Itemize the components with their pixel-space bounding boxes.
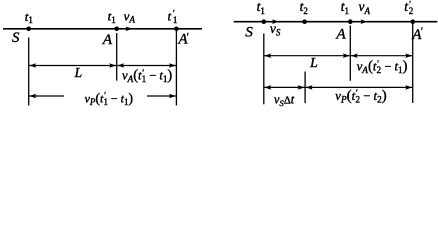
point A-prime dot (left panel) xyxy=(174,27,179,32)
svg-text:A: A xyxy=(102,31,113,48)
left panel axis line xyxy=(3,28,202,30)
svg-text:t1: t1 xyxy=(108,9,116,25)
dimension arrow vP(t1p-t1) with inline label (left panel) xyxy=(29,95,64,97)
dimension arrow vA(t1p-t1) (left panel) xyxy=(117,65,177,67)
point A dot (right panel) xyxy=(348,19,353,24)
svg-text:L: L xyxy=(309,55,318,70)
dimension arrow L (right panel) xyxy=(264,55,351,57)
point A-prime dot (right panel) xyxy=(411,19,416,24)
svg-text:A′: A′ xyxy=(178,32,190,48)
dimension arrow vP(t2p-t2) (right panel) xyxy=(305,86,413,88)
svg-text:t1: t1 xyxy=(257,0,265,16)
svg-text:S: S xyxy=(245,23,253,40)
vertical extension line from A-prime (left panel) xyxy=(175,31,177,106)
point S dot (left panel) xyxy=(26,27,31,32)
svg-text:t′2: t′2 xyxy=(404,0,413,16)
velocity arrowhead vA on axis (right panel) xyxy=(361,19,368,24)
svg-text:vA(t′2 − t1): vA(t′2 − t1) xyxy=(357,59,408,77)
svg-text:vA: vA xyxy=(359,0,371,16)
svg-text:vS: vS xyxy=(270,21,281,38)
svg-text:S: S xyxy=(12,30,20,46)
svg-text:t1: t1 xyxy=(25,9,33,25)
dimension arrow L (left panel) xyxy=(29,65,117,67)
velocity arrowhead vA on axis (left panel) xyxy=(126,27,133,32)
dimension arrow vS delta-t (right panel) xyxy=(264,86,305,88)
svg-text:t2: t2 xyxy=(300,0,308,16)
velocity arrowhead vS on axis (right panel) xyxy=(272,19,279,24)
svg-text:t′1: t′1 xyxy=(168,9,178,25)
vertical extension line from A (right panel) xyxy=(349,26,351,81)
point A dot (left panel) xyxy=(114,27,119,32)
right panel axis line xyxy=(234,21,438,23)
dimension arrow vA(t2p-t1) (right panel) xyxy=(350,55,412,57)
svg-text:vP(t′1 − t1): vP(t′1 − t1) xyxy=(85,91,134,107)
svg-text:vA(t′1 − t1): vA(t′1 − t1) xyxy=(122,68,172,85)
svg-text:vSΔt: vSΔt xyxy=(274,92,295,108)
vertical extension line from S (left panel) xyxy=(28,38,30,106)
point S dot (right panel) xyxy=(262,19,267,24)
svg-text:vA: vA xyxy=(124,8,136,24)
vertical extension line from S (right panel) xyxy=(263,34,265,105)
svg-text:L: L xyxy=(74,65,83,80)
vertical extension line from A (left panel) xyxy=(116,33,118,81)
vertical extension line at t2 (right panel) xyxy=(304,72,306,104)
svg-text:vP(t′2 − t2): vP(t′2 − t2) xyxy=(335,88,386,106)
svg-text:t1: t1 xyxy=(341,0,349,16)
point t2 dot (right panel) xyxy=(302,19,307,24)
svg-text:A: A xyxy=(335,25,346,42)
vertical extension line from A-prime (right panel) xyxy=(412,24,414,103)
